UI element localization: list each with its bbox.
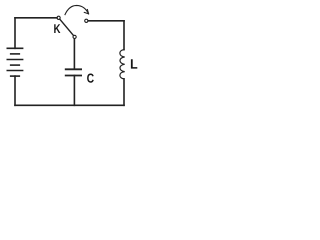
switch K pivot terminal [73, 35, 76, 38]
inductor L [120, 50, 125, 79]
label L [131, 59, 137, 68]
wire switch pivot to capacitor [73, 39, 75, 69]
capacitor C [66, 69, 81, 75]
label K [54, 24, 60, 33]
switch K left terminal [57, 16, 60, 19]
wire left vertical upper (top corner to battery) [14, 18, 16, 49]
switch K blade [60, 19, 74, 35]
wire top-right (switch terminal to inductor branch) [88, 20, 124, 22]
wire top-left (battery to switch terminal) [15, 17, 57, 19]
wire right vertical upper [123, 21, 125, 50]
wire right vertical lower [123, 79, 125, 105]
wire left vertical lower (battery to bottom) [14, 76, 16, 105]
wire bottom [15, 104, 124, 106]
switch K right terminal [85, 19, 88, 22]
battery [7, 48, 22, 76]
wire capacitor to bottom [73, 76, 75, 106]
label C [87, 74, 94, 83]
switch throw arrow arc [65, 5, 89, 14]
